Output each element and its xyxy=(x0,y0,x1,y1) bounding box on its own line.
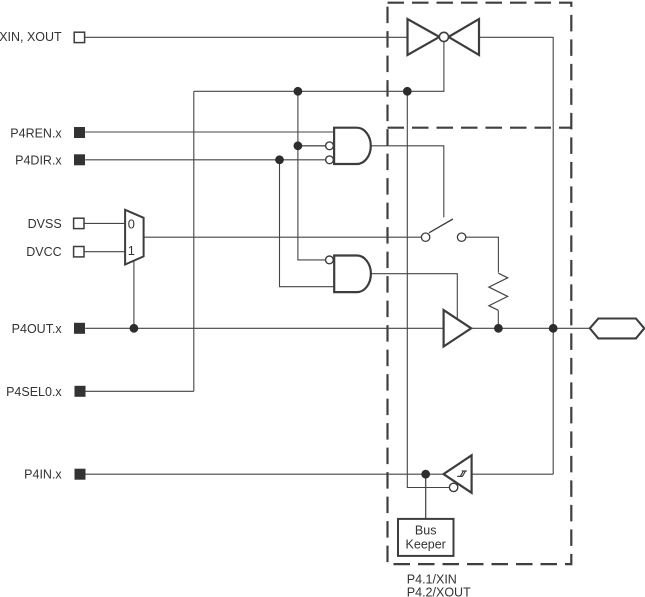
input buffer with hysteresis xyxy=(444,455,472,493)
AND gate U2 (DIR path, one inverted input) xyxy=(334,256,371,293)
terminal P4SEL0.x xyxy=(75,386,86,397)
pad symbol P4.1/P4.2 xyxy=(590,319,645,339)
junction oscillator enable node xyxy=(403,87,412,96)
pull switch right contact xyxy=(457,233,465,241)
wire mux select from P4OUT xyxy=(133,261,135,329)
net P4OUT to output driver xyxy=(85,327,443,329)
output driver buffer xyxy=(444,310,472,346)
wire mux output to pull switch xyxy=(144,236,422,238)
wire XIN,XOUT to oscillator buffer xyxy=(85,36,408,38)
junction mux select on P4OUT xyxy=(130,324,139,333)
wire input-buffer enable vertical xyxy=(407,91,449,487)
junction P4DIR branch xyxy=(275,155,284,164)
svg-text:P4.2/XOUT: P4.2/XOUT xyxy=(407,586,471,597)
terminal XIN, XOUT xyxy=(74,32,84,42)
AND1 input bubble bottom xyxy=(326,156,334,164)
terminal P4DIR.x xyxy=(74,154,85,165)
svg-text:P4OUT.x: P4OUT.x xyxy=(12,322,63,336)
AND gate U1 (REN path, two inverted inputs) xyxy=(334,128,371,164)
oscillator bidirectional buffer right triangle xyxy=(449,19,480,55)
wire resistor to pad net xyxy=(497,310,499,328)
wire P4SEL0 from terminal xyxy=(86,390,194,392)
oscillator buffer center bubble xyxy=(439,32,448,41)
wire P4SEL0 branch to AND1 bubble xyxy=(298,145,326,147)
svg-text:Bus: Bus xyxy=(415,523,437,537)
bus keeper block xyxy=(398,519,454,556)
svg-text:1: 1 xyxy=(128,243,135,258)
net P4IN from input buffer xyxy=(86,473,444,475)
junction pad column xyxy=(549,324,558,333)
wire DVSS to mux input 0 xyxy=(83,222,125,224)
svg-text:P4SEL0.x: P4SEL0.x xyxy=(6,385,62,399)
wire P4DIR branch to AND2 xyxy=(280,160,335,287)
wire bus keeper connection xyxy=(425,474,427,519)
terminal P4IN.x xyxy=(75,469,86,480)
net P4SEL0 horizontal run xyxy=(194,90,407,92)
svg-text:DVCC: DVCC xyxy=(26,245,61,259)
wire AND2 output to driver enable xyxy=(371,274,458,320)
wire AND1 output to switch control xyxy=(371,146,444,218)
terminal P4OUT.x xyxy=(74,323,85,334)
dashed internal boundary line xyxy=(388,127,572,129)
oscillator bidirectional buffer left triangle xyxy=(408,19,440,55)
junction resistor to pad net xyxy=(494,324,503,333)
pull resistor R xyxy=(489,273,508,310)
hysteresis symbol xyxy=(457,471,467,476)
wire switch to pullup resistor xyxy=(466,237,499,272)
svg-text:XIN, XOUT: XIN, XOUT xyxy=(0,30,62,44)
pull switch lever xyxy=(429,219,453,233)
terminal DVSS xyxy=(74,218,84,228)
junction P4SEL0 branch xyxy=(294,87,303,96)
net P4SEL0 vertical riser xyxy=(193,91,195,391)
wire output driver to pad xyxy=(472,327,590,329)
wire P4DIR to AND1 bubble xyxy=(85,159,326,161)
svg-text:P4IN.x: P4IN.x xyxy=(24,468,62,482)
wire P4SEL0 branch to gates xyxy=(298,91,326,260)
svg-text:DVSS: DVSS xyxy=(28,217,62,231)
wire pad to input buffer xyxy=(472,473,554,475)
wire oscillator enable from node xyxy=(407,42,444,92)
svg-text:Keeper: Keeper xyxy=(406,537,446,551)
AND2 input bubble xyxy=(326,256,334,264)
wire DVCC to mux input 1 xyxy=(83,251,125,253)
AND1 input bubble top xyxy=(326,142,334,150)
dashed module boundary box xyxy=(388,3,572,564)
junction AND1 middle input xyxy=(294,141,303,150)
svg-text:P4DIR.x: P4DIR.x xyxy=(15,153,62,167)
wire oscillator buffer to pad column xyxy=(479,37,553,474)
mux DVSS/DVCC select xyxy=(125,210,144,265)
junction bus keeper tap xyxy=(421,470,430,479)
svg-text:P4REN.x: P4REN.x xyxy=(10,127,62,141)
terminal DVCC xyxy=(74,247,84,257)
wire P4REN to AND1 xyxy=(85,131,334,133)
pull switch left contact xyxy=(421,233,429,241)
input buffer enable bubble xyxy=(449,483,457,491)
terminal P4REN.x xyxy=(74,127,85,138)
svg-text:P4.1/XIN: P4.1/XIN xyxy=(407,572,457,586)
svg-text:0: 0 xyxy=(128,216,135,231)
